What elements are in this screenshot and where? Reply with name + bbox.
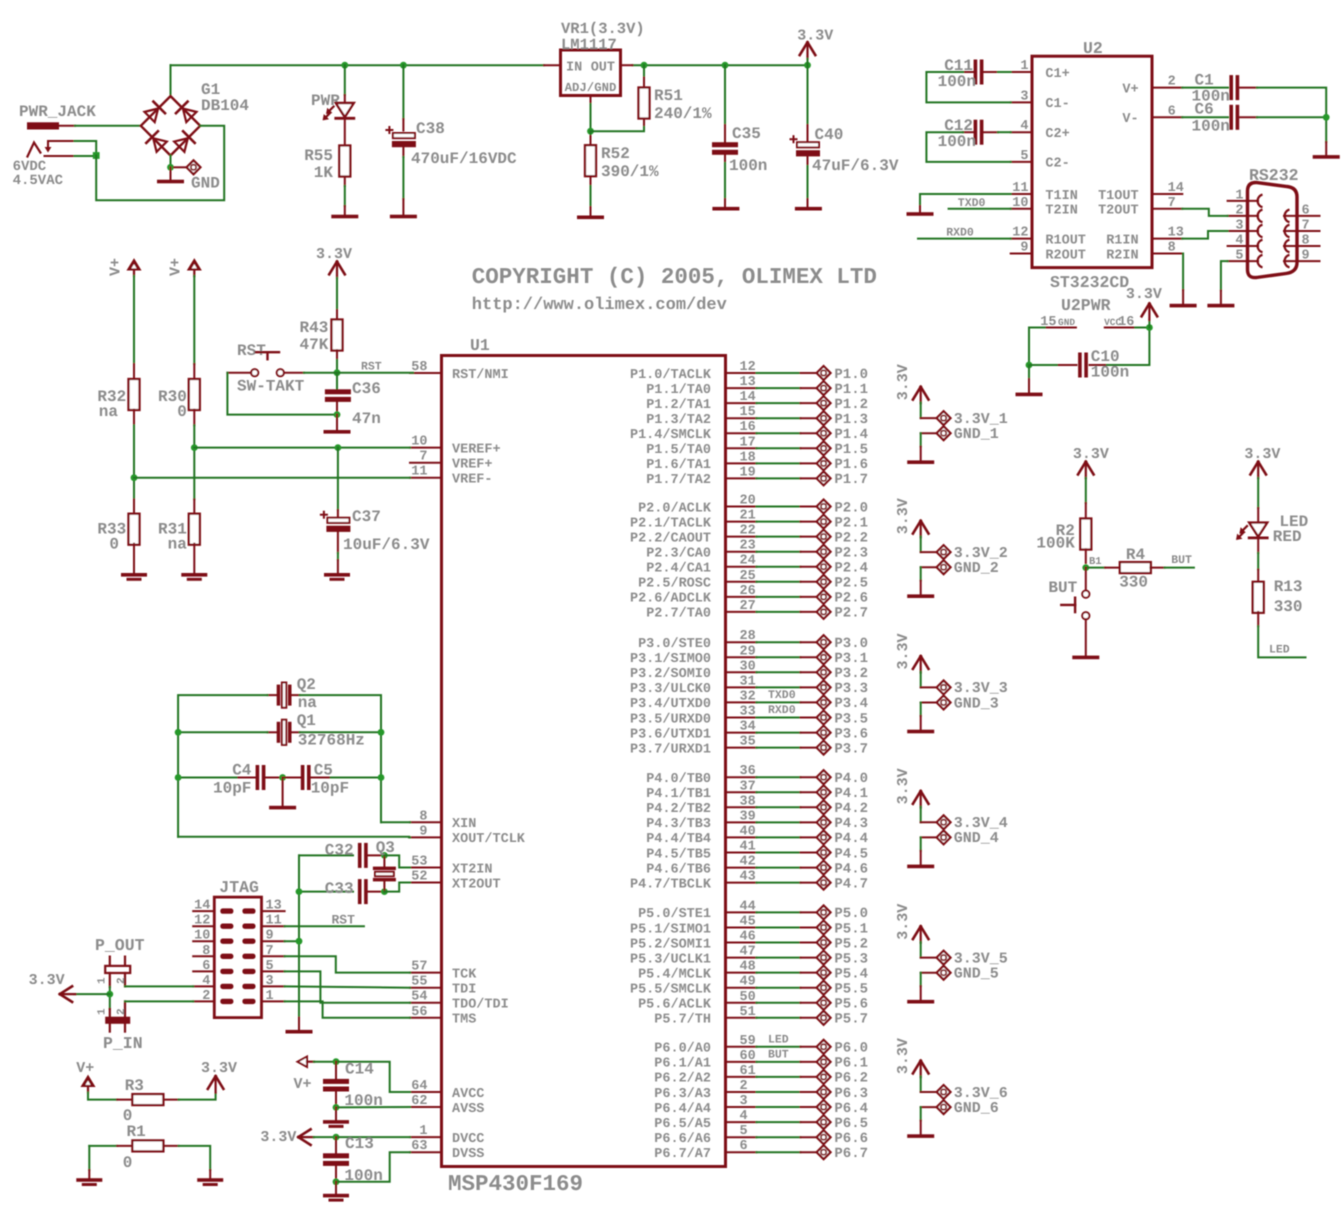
wire Q1 right bbox=[300, 731, 381, 733]
capacitor C35 100n bbox=[724, 65, 726, 125]
crystal Q1 32768Hz bbox=[277, 722, 281, 743]
pin 33 P3.5/URXD0 bbox=[725, 717, 756, 719]
wire C12 to pin5 bbox=[926, 132, 1010, 162]
wire P6.3 bbox=[757, 1091, 801, 1093]
svg-text:C14: C14 bbox=[345, 1060, 374, 1078]
IC U1 MSP430F169 bbox=[442, 356, 726, 1167]
svg-text:P1.2/TA1: P1.2/TA1 bbox=[646, 398, 711, 413]
wire P6.5 bbox=[757, 1121, 801, 1123]
port GND bbox=[174, 166, 186, 168]
svg-text:BUT: BUT bbox=[1171, 554, 1192, 567]
port P5.4 bbox=[801, 972, 817, 974]
svg-text:40: 40 bbox=[740, 824, 756, 839]
port P5.0 bbox=[801, 911, 817, 913]
pin 1 JTAG bbox=[262, 1000, 285, 1002]
svg-text:3: 3 bbox=[1235, 219, 1243, 234]
svg-text:47uF/6.3V: 47uF/6.3V bbox=[812, 157, 899, 175]
wire to AVCC bbox=[336, 1062, 410, 1092]
svg-text:P5.4/MCLK: P5.4/MCLK bbox=[638, 967, 712, 982]
pin 7 VREF+ bbox=[410, 462, 442, 464]
svg-text:10: 10 bbox=[411, 435, 427, 450]
pin 44 P5.0/STE1 bbox=[725, 911, 756, 913]
port GND_3 bbox=[921, 702, 937, 704]
wire P5.3 bbox=[757, 957, 801, 959]
svg-text:P3.5/URXD0: P3.5/URXD0 bbox=[630, 712, 711, 727]
svg-text:4.5VAC: 4.5VAC bbox=[13, 173, 64, 189]
svg-text:7: 7 bbox=[1302, 219, 1310, 234]
port P5.2 bbox=[801, 942, 817, 944]
svg-text:32768Hz: 32768Hz bbox=[298, 731, 365, 749]
svg-text:C1+: C1+ bbox=[1045, 67, 1069, 82]
capacitor C36 47n bbox=[336, 373, 338, 389]
port P3.7 bbox=[801, 747, 817, 749]
svg-text:14: 14 bbox=[1168, 181, 1184, 196]
svg-text:6: 6 bbox=[1168, 104, 1176, 119]
svg-text:P3.3/ULCK0: P3.3/ULCK0 bbox=[630, 682, 711, 697]
pin 11 T1IN bbox=[1011, 193, 1032, 195]
pin 11 JTAG bbox=[262, 925, 285, 927]
svg-text:V+: V+ bbox=[76, 1060, 94, 1077]
svg-text:10uF/6.3V: 10uF/6.3V bbox=[343, 536, 430, 554]
pin 58 RST/NMI bbox=[410, 372, 442, 374]
svg-text:P6.0/A0: P6.0/A0 bbox=[654, 1042, 711, 1057]
svg-text:V-: V- bbox=[1122, 112, 1138, 127]
junction C13 bottom bbox=[333, 1178, 340, 1185]
wire pin15 to C10 bbox=[1029, 328, 1045, 366]
port P1.4 bbox=[801, 432, 817, 434]
pin 23 P2.3/CA0 bbox=[725, 551, 756, 553]
pin 41 P4.5/TB5 bbox=[725, 852, 756, 854]
svg-text:VEREF+: VEREF+ bbox=[452, 442, 501, 457]
wire P4.4 bbox=[757, 836, 801, 838]
svg-text:P_OUT: P_OUT bbox=[95, 936, 145, 955]
pin 12 P1.0/TACLK bbox=[725, 372, 756, 374]
svg-text:34: 34 bbox=[740, 720, 756, 735]
port P3.6 bbox=[801, 732, 817, 734]
wire XOUT bbox=[178, 836, 410, 839]
pin 36 P4.0/TB0 bbox=[725, 776, 756, 778]
svg-text:15: 15 bbox=[740, 405, 756, 420]
svg-text:62: 62 bbox=[411, 1094, 427, 1109]
svg-text:P1.6: P1.6 bbox=[834, 457, 868, 473]
svg-text:100n: 100n bbox=[1091, 364, 1129, 382]
resistor R3 0 bbox=[117, 1099, 132, 1101]
svg-text:P6.7: P6.7 bbox=[834, 1146, 868, 1162]
junction Q3 bottom bbox=[381, 888, 388, 895]
ground bbox=[390, 215, 417, 219]
capacitor C37 10uF/6.3V bbox=[337, 448, 339, 510]
svg-text:5: 5 bbox=[1020, 149, 1028, 164]
pin 4 C2+ bbox=[1011, 131, 1032, 133]
pin 5 P6.6/A6 bbox=[725, 1136, 756, 1138]
wire P5.4 bbox=[757, 972, 801, 974]
svg-text:21: 21 bbox=[740, 509, 756, 524]
wire C11 to pin3 bbox=[926, 72, 1010, 102]
svg-text:3.3V: 3.3V bbox=[895, 768, 912, 804]
svg-text:12: 12 bbox=[1012, 226, 1028, 241]
svg-text:470uF/16VDC: 470uF/16VDC bbox=[411, 150, 517, 168]
supply 3.3V bbox=[215, 1076, 217, 1093]
svg-text:BUT: BUT bbox=[768, 1048, 789, 1061]
junction rail/R51 bbox=[641, 62, 648, 69]
svg-text:SW-TAKT: SW-TAKT bbox=[237, 378, 305, 396]
svg-text:P6.6/A6: P6.6/A6 bbox=[654, 1132, 711, 1147]
svg-text:GND: GND bbox=[1058, 317, 1075, 328]
port P4.4 bbox=[801, 836, 817, 838]
wire LED to R13 bbox=[1257, 553, 1259, 570]
svg-text:41: 41 bbox=[740, 840, 756, 855]
ground bbox=[1016, 393, 1043, 397]
wire P3.2 bbox=[757, 671, 801, 673]
pin 3 JTAG bbox=[262, 985, 285, 987]
svg-text:P2.1/TACLK: P2.1/TACLK bbox=[630, 516, 712, 531]
svg-text:43: 43 bbox=[740, 870, 756, 885]
connector RS232 DB9 bbox=[1248, 183, 1298, 278]
svg-text:LM1117: LM1117 bbox=[561, 36, 617, 54]
capacitor C10 100n bbox=[1059, 364, 1077, 366]
capacitor C40 47uF/6.3V bbox=[807, 65, 809, 125]
pin 8 XIN bbox=[410, 821, 442, 823]
svg-text:8: 8 bbox=[1168, 241, 1176, 256]
supply 3.3V left arrow bbox=[74, 993, 110, 995]
svg-text:4: 4 bbox=[202, 974, 210, 989]
svg-text:P3.7/URXD1: P3.7/URXD1 bbox=[630, 742, 711, 757]
svg-text:P6.4: P6.4 bbox=[834, 1101, 868, 1117]
svg-text:56: 56 bbox=[411, 1005, 427, 1020]
wire P4.0 bbox=[757, 776, 801, 778]
svg-text:TDO/TDI: TDO/TDI bbox=[452, 998, 509, 1013]
svg-text:14: 14 bbox=[740, 390, 756, 405]
svg-text:T2IN: T2IN bbox=[1045, 204, 1077, 219]
svg-text:10pF: 10pF bbox=[311, 780, 349, 798]
port GND_1 bbox=[921, 432, 937, 434]
wire bridge minus to ground node bbox=[170, 156, 172, 168]
resistor R32 na bbox=[133, 364, 135, 380]
junction C36 bottom bbox=[334, 411, 341, 418]
port GND_6 bbox=[921, 1106, 937, 1108]
svg-text:P1.6/TA1: P1.6/TA1 bbox=[646, 458, 711, 473]
svg-text:P4.2: P4.2 bbox=[834, 801, 868, 817]
pin 22 P2.2/CAOUT bbox=[725, 536, 756, 538]
pin 8 RS232 bbox=[1284, 245, 1320, 247]
svg-text:RED: RED bbox=[1273, 528, 1302, 546]
ground bbox=[712, 207, 739, 211]
svg-text:P6.1: P6.1 bbox=[834, 1056, 868, 1072]
svg-text:BUT: BUT bbox=[1048, 579, 1077, 597]
svg-text:V+: V+ bbox=[294, 1076, 312, 1093]
wire R3 to 3.3V bbox=[179, 1093, 216, 1100]
svg-text:9: 9 bbox=[1302, 249, 1310, 264]
wire P4.7 bbox=[757, 882, 801, 884]
svg-text:V+: V+ bbox=[108, 258, 125, 276]
svg-text:V+: V+ bbox=[1122, 82, 1138, 97]
junction rail/C40 bbox=[804, 62, 811, 69]
svg-text:GND_3: GND_3 bbox=[954, 695, 999, 712]
wire P2.2 bbox=[757, 536, 801, 538]
port P2.2 bbox=[801, 536, 817, 538]
junction ground node bbox=[167, 164, 174, 171]
resistor R55 1K bbox=[339, 146, 350, 177]
svg-text:55: 55 bbox=[411, 975, 427, 990]
svg-text:P1.7: P1.7 bbox=[834, 472, 868, 488]
svg-text:P1.1: P1.1 bbox=[834, 382, 868, 398]
svg-text:V+: V+ bbox=[168, 258, 185, 276]
svg-text:P5.5: P5.5 bbox=[834, 982, 868, 998]
svg-text:3.3V: 3.3V bbox=[1073, 446, 1109, 463]
junction VEREF+ node bbox=[191, 444, 198, 451]
wire net RST jtag bbox=[285, 925, 364, 927]
svg-text:P5.7/TH: P5.7/TH bbox=[654, 1013, 711, 1028]
svg-text:3.3V: 3.3V bbox=[29, 972, 65, 989]
wire P3.7 bbox=[757, 747, 801, 749]
svg-text:100n: 100n bbox=[729, 157, 767, 175]
resistor R31 na bbox=[193, 499, 195, 514]
pin 8 R2IN bbox=[1152, 253, 1182, 255]
pin 51 P5.7/TH bbox=[725, 1017, 756, 1019]
svg-text:P3.0/STE0: P3.0/STE0 bbox=[638, 637, 711, 652]
svg-text:IN: IN bbox=[566, 61, 582, 76]
svg-text:P3.4: P3.4 bbox=[834, 696, 868, 712]
ground bbox=[286, 1030, 313, 1034]
pin 32 P3.4/UTXD0 bbox=[725, 701, 756, 703]
wire P2.1 bbox=[757, 521, 801, 523]
resistor R2 100K bbox=[1085, 503, 1087, 519]
port GND_2 bbox=[921, 566, 937, 568]
pin 14 JTAG bbox=[193, 910, 214, 912]
svg-text:P2.5/ROSC: P2.5/ROSC bbox=[638, 577, 711, 592]
svg-text:390/1%: 390/1% bbox=[601, 163, 659, 181]
svg-text:XIN: XIN bbox=[452, 817, 476, 832]
svg-text:VREF+: VREF+ bbox=[452, 458, 493, 473]
port P5.1 bbox=[801, 927, 817, 929]
svg-text:TXD0: TXD0 bbox=[958, 197, 986, 210]
svg-text:33: 33 bbox=[740, 705, 756, 720]
svg-text:R3: R3 bbox=[125, 1077, 144, 1095]
junction C37 tap bbox=[335, 444, 342, 451]
wire P_IN pin2 to JTAG pin2 bbox=[125, 1000, 193, 1002]
svg-text:330: 330 bbox=[1274, 598, 1303, 616]
svg-text:20: 20 bbox=[740, 494, 756, 509]
pin 16 P1.4/SMCLK bbox=[725, 432, 756, 434]
svg-text:59: 59 bbox=[740, 1034, 756, 1049]
svg-text:31: 31 bbox=[740, 674, 756, 689]
wire P6.1 bbox=[757, 1061, 801, 1063]
svg-text:P4.0/TB0: P4.0/TB0 bbox=[646, 772, 711, 787]
svg-text:51: 51 bbox=[740, 1005, 756, 1020]
junction rail/C35 bbox=[722, 62, 729, 69]
svg-text:10: 10 bbox=[194, 929, 210, 944]
svg-text:AVSS: AVSS bbox=[452, 1102, 484, 1117]
wire R32 to R33 bbox=[133, 425, 135, 499]
wire switch to RST node bbox=[304, 372, 337, 374]
pin 14 P1.2/TA1 bbox=[725, 402, 756, 404]
svg-text:LED: LED bbox=[1269, 644, 1290, 657]
svg-text:RXD0: RXD0 bbox=[768, 704, 796, 717]
pin 1 DVCC bbox=[410, 1136, 442, 1138]
svg-text:3: 3 bbox=[740, 1094, 748, 1109]
pin 48 P5.4/MCLK bbox=[725, 972, 756, 974]
port P2.7 bbox=[801, 611, 817, 613]
port P6.4 bbox=[801, 1106, 817, 1108]
junction 3.3V tap bbox=[106, 991, 113, 998]
svg-text:14: 14 bbox=[194, 899, 210, 914]
ground bbox=[577, 216, 604, 220]
ground bbox=[907, 865, 934, 869]
port P5.6 bbox=[801, 1002, 817, 1004]
ground bbox=[197, 1178, 223, 1182]
port P4.2 bbox=[801, 806, 817, 808]
wire P3.3 bbox=[757, 686, 801, 688]
svg-text:C33: C33 bbox=[325, 880, 354, 898]
pin 21 P2.1/TACLK bbox=[725, 521, 756, 523]
port P1.0 bbox=[801, 372, 817, 374]
svg-text:4: 4 bbox=[1020, 119, 1028, 134]
svg-text:P1.0/TACLK: P1.0/TACLK bbox=[630, 368, 712, 383]
svg-text:61: 61 bbox=[740, 1064, 756, 1079]
svg-text:P5.3/UCLK1: P5.3/UCLK1 bbox=[630, 952, 711, 967]
svg-text:P4.1: P4.1 bbox=[834, 786, 868, 802]
bridge rectifier G1 DB104 bbox=[141, 96, 200, 155]
pin 9 JTAG bbox=[262, 940, 285, 942]
wire C40 to ground bbox=[807, 166, 809, 199]
svg-text:P5.7: P5.7 bbox=[834, 1012, 868, 1028]
connector PWR_JACK bbox=[27, 122, 59, 129]
pin 3 C1- bbox=[1011, 101, 1032, 103]
port P6.2 bbox=[801, 1076, 817, 1078]
wire switch left to C36 bottom bbox=[227, 373, 337, 415]
svg-text:3.3V: 3.3V bbox=[316, 246, 352, 263]
svg-text:COPYRIGHT (C) 2005, OLIMEX LTD: COPYRIGHT (C) 2005, OLIMEX LTD bbox=[472, 264, 877, 290]
wire XIN bbox=[381, 821, 410, 823]
wire Q2 left bbox=[178, 695, 267, 837]
svg-text:48: 48 bbox=[740, 960, 756, 975]
svg-text:45: 45 bbox=[740, 915, 756, 930]
svg-text:10pF: 10pF bbox=[213, 780, 251, 798]
svg-text:47n: 47n bbox=[352, 410, 381, 428]
pin 63 DVSS bbox=[410, 1151, 442, 1153]
pin 12 R1OUT bbox=[1011, 238, 1032, 240]
pin 37 P4.1/TB1 bbox=[725, 791, 756, 793]
svg-text:TDI: TDI bbox=[452, 983, 476, 998]
svg-text:PWR_JACK: PWR_JACK bbox=[19, 103, 96, 121]
pin 59 P6.0/A0 bbox=[725, 1046, 756, 1048]
wire P2.0 bbox=[757, 506, 801, 508]
port 3.3V_5 bbox=[921, 957, 937, 959]
wire GND_5 to ground bbox=[920, 973, 922, 986]
ground bbox=[1072, 656, 1099, 660]
svg-text:T1OUT: T1OUT bbox=[1098, 189, 1139, 204]
ground bbox=[907, 730, 934, 734]
ground bbox=[907, 1000, 934, 1004]
svg-text:5: 5 bbox=[740, 1124, 748, 1139]
svg-text:P2.3/CA0: P2.3/CA0 bbox=[646, 547, 711, 562]
pin 39 P4.3/TB3 bbox=[725, 821, 756, 823]
wire P1.2 bbox=[757, 402, 801, 404]
wire P3.1 bbox=[757, 656, 801, 658]
svg-text:C35: C35 bbox=[732, 125, 761, 143]
resistor R4 330 bbox=[1105, 567, 1120, 569]
svg-text:P5.6: P5.6 bbox=[834, 997, 868, 1013]
svg-text:0: 0 bbox=[123, 1154, 133, 1172]
svg-text:18: 18 bbox=[740, 450, 756, 465]
svg-text:P4.7/TBCLK: P4.7/TBCLK bbox=[630, 877, 712, 892]
svg-text:P3.0: P3.0 bbox=[834, 636, 868, 652]
wire C38 to ground bbox=[402, 157, 404, 199]
svg-text:U2PWR: U2PWR bbox=[1061, 296, 1111, 315]
wire P4.2 bbox=[757, 806, 801, 808]
pin 18 P1.6/TA1 bbox=[725, 462, 756, 464]
pin 56 TMS bbox=[410, 1017, 442, 1019]
svg-text:P1.4: P1.4 bbox=[834, 427, 868, 443]
wire P1.4 bbox=[757, 432, 801, 434]
wire P1.5 bbox=[757, 447, 801, 449]
pin 20 P2.0/ACLK bbox=[725, 506, 756, 508]
svg-text:13: 13 bbox=[740, 375, 756, 390]
pin 28 P3.0/STE0 bbox=[725, 641, 756, 643]
wire C32 C33 left vertical bbox=[298, 855, 300, 1017]
svg-text:R2IN: R2IN bbox=[1106, 248, 1138, 263]
pin 2 JTAG bbox=[193, 1000, 214, 1002]
pin 10 JTAG bbox=[193, 940, 214, 942]
svg-text:7: 7 bbox=[419, 450, 427, 465]
pin 64 AVCC bbox=[410, 1091, 442, 1093]
svg-text:42: 42 bbox=[740, 855, 756, 870]
svg-text:7: 7 bbox=[1168, 196, 1176, 211]
junction C5 right bbox=[378, 774, 385, 781]
svg-text:DB104: DB104 bbox=[201, 97, 249, 115]
svg-text:3.3V: 3.3V bbox=[895, 364, 912, 400]
pin 4 JTAG bbox=[193, 985, 214, 987]
wire RS232 pin5 to ground bbox=[1221, 261, 1228, 290]
svg-text:330: 330 bbox=[1119, 574, 1148, 592]
svg-text:1: 1 bbox=[419, 1124, 427, 1139]
pin 12 JTAG bbox=[193, 925, 214, 927]
pin 40 P4.4/TB4 bbox=[725, 836, 756, 838]
pin 6 JTAG bbox=[193, 970, 214, 972]
capacitor C33 bbox=[299, 891, 353, 893]
wire Q3 top to XT2IN bbox=[384, 855, 410, 867]
wire P4.5 bbox=[757, 852, 801, 854]
pin 10 VEREF+ bbox=[410, 447, 442, 449]
svg-text:25: 25 bbox=[740, 569, 756, 584]
wire R1 left to ground bbox=[88, 1146, 90, 1170]
svg-text:AVCC: AVCC bbox=[452, 1087, 484, 1102]
svg-text:R1: R1 bbox=[127, 1123, 146, 1141]
pin 2 V+ bbox=[1152, 87, 1182, 89]
wire net TXD0 bbox=[949, 208, 1011, 210]
pin 9 XOUT/TCLK bbox=[410, 836, 442, 838]
svg-text:13: 13 bbox=[266, 899, 282, 914]
svg-text:T2OUT: T2OUT bbox=[1098, 204, 1139, 219]
svg-text:49: 49 bbox=[740, 975, 756, 990]
junction RST node bbox=[334, 369, 341, 376]
svg-text:P5.0/STE1: P5.0/STE1 bbox=[638, 907, 711, 922]
capacitor C12 100n bbox=[974, 120, 978, 145]
wire R52 to ground bbox=[590, 186, 592, 207]
svg-text:8: 8 bbox=[202, 944, 210, 959]
port P1.6 bbox=[801, 462, 817, 464]
svg-text:XT2OUT: XT2OUT bbox=[452, 877, 501, 892]
svg-text:P6.2/A2: P6.2/A2 bbox=[654, 1072, 711, 1087]
junction C13 top bbox=[333, 1134, 340, 1141]
port P1.5 bbox=[801, 447, 817, 449]
svg-text:P3.2/SOMI0: P3.2/SOMI0 bbox=[630, 667, 711, 682]
ground bbox=[323, 1120, 349, 1124]
svg-text:46: 46 bbox=[740, 930, 756, 945]
junction rail/C38 bbox=[400, 62, 407, 69]
svg-text:47K: 47K bbox=[299, 336, 328, 354]
svg-text:38: 38 bbox=[740, 794, 756, 809]
